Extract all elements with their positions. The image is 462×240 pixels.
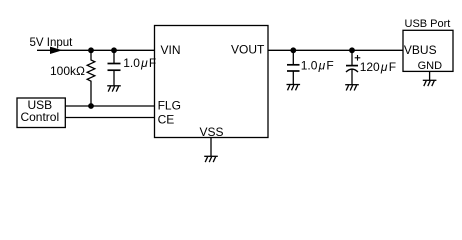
svg-text:120μF: 120μF [360,60,396,74]
wire FLG [65,105,154,107]
svg-text:FLG: FLG [158,98,181,112]
wire GND pin [429,71,431,80]
node A junction dot (resistor tap) [88,47,94,53]
ground (input cap) [107,86,121,92]
svg-text:VBUS: VBUS [404,43,437,57]
capacitor C2 1.0uF output [292,50,294,65]
svg-text:VSS: VSS [200,125,224,139]
capacitor C1 1.0uF input [113,50,115,63]
node C junction dot (output cap tap) [290,47,296,53]
svg-text:1.0μF: 1.0μF [301,58,334,72]
wire CE [65,117,154,119]
USB Control box [17,98,65,128]
USB Port box [403,30,453,71]
wire output VOUT rail [268,49,403,51]
node B junction dot (input cap tap) [111,47,117,53]
svg-text:Control: Control [20,110,59,124]
svg-text:5V Input: 5V Input [30,37,74,49]
svg-text:GND: GND [418,60,443,72]
capacitor C3 120uF electrolytic [351,50,353,65]
svg-text:VOUT: VOUT [231,43,265,57]
wire input 5V rail [37,49,155,51]
IC U1 body [155,26,269,138]
plus polarity mark [355,55,361,61]
ground (bulk cap) [345,85,359,91]
wire VSS pin [210,138,212,157]
svg-text:100kΩ: 100kΩ [50,64,85,78]
svg-text:USB Port: USB Port [405,18,451,30]
resistor 100k [87,50,95,106]
svg-text:1.0μF: 1.0μF [123,56,156,70]
svg-text:CE: CE [158,112,175,126]
ground (VSS) [204,156,218,162]
ground (output cap) [287,85,301,91]
node D junction dot (bulk cap tap) [349,47,355,53]
input arrow [50,47,63,54]
junction dot on FLG wire [88,103,94,109]
ground (USB port) [423,80,437,86]
svg-text:VIN: VIN [161,43,181,57]
